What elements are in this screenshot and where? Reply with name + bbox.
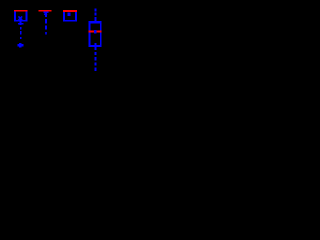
background xyxy=(0,0,108,105)
M1 source contact cross below box xyxy=(20,22,22,25)
transistor M2 poly gate bar (red) xyxy=(39,10,52,12)
M4 gate contact block (blue) xyxy=(94,30,97,33)
M4 poly gate bar crossing box (red) xyxy=(89,31,102,33)
wire: dashed metal1 into cell M4 from top xyxy=(94,8,96,11)
M3 diffusion box right edge (blue) xyxy=(75,12,77,22)
M3 diffusion box bottom edge (blue) xyxy=(63,20,77,22)
transistor M3 poly gate bar (red) xyxy=(63,10,77,12)
wire: dashed metal1 from M2 gate down xyxy=(45,12,47,17)
M1 diffusion box left edge (metal outline, blue) xyxy=(14,12,16,22)
transistor M1 poly gate bar (red) xyxy=(14,10,27,12)
M1 contact stem joining X to bottom edge xyxy=(20,19,22,21)
M1 diffusion box bottom edge (blue) xyxy=(14,20,27,22)
M4 well box bottom edge (blue) xyxy=(89,45,102,47)
M2 contact X mark below gate xyxy=(44,12,47,15)
M4 well box left edge (blue) xyxy=(89,21,91,47)
wire: dashed metal1 from M1 down to node A xyxy=(20,27,22,30)
transistor M4 well box top edge (blue) xyxy=(89,21,102,23)
wire: dashed metal1 below M4 xyxy=(95,52,97,55)
M2 gate contact crossbar (blue) xyxy=(44,11,49,13)
node A junction cross (blue plus) xyxy=(19,43,21,48)
via V1 filled square inside M3 xyxy=(67,13,70,16)
M3 diffusion box left edge (blue) xyxy=(63,12,65,22)
wire: dash crossing box bottom edge xyxy=(95,43,97,50)
M1 contact X mark xyxy=(18,16,22,20)
M4 well box right edge (blue) xyxy=(100,21,102,47)
M1 diffusion box right edge (blue) xyxy=(26,12,28,22)
